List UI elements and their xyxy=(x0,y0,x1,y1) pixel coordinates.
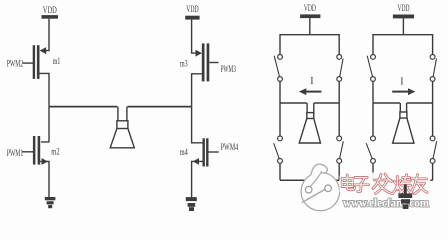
svg-text:I: I xyxy=(310,76,313,87)
svg-text:VDD: VDD xyxy=(186,4,199,14)
svg-text:m4: m4 xyxy=(180,148,188,158)
svg-text:m3: m3 xyxy=(180,60,188,70)
svg-text:m1: m1 xyxy=(53,57,61,67)
svg-text:m2: m2 xyxy=(51,147,60,157)
svg-text:PWM2: PWM2 xyxy=(7,59,23,70)
svg-text:VDD: VDD xyxy=(398,3,410,13)
svg-text:www.elecfans.com: www.elecfans.com xyxy=(343,198,430,210)
svg-text:VDD: VDD xyxy=(304,3,316,13)
svg-text:VDD: VDD xyxy=(43,5,57,15)
svg-text:PWM1: PWM1 xyxy=(7,148,24,159)
svg-text:I: I xyxy=(400,77,403,88)
svg-text:PWM4: PWM4 xyxy=(221,142,239,153)
svg-text:PWM3: PWM3 xyxy=(221,64,236,75)
